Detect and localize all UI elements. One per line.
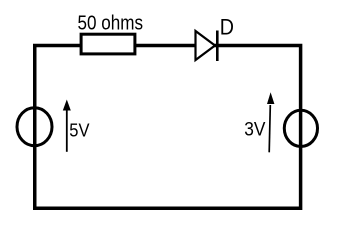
svg-text:5V: 5V <box>69 120 90 141</box>
diode D symbol <box>196 31 218 62</box>
resistor R1 (50 ohms) body <box>81 34 135 54</box>
svg-text:D: D <box>220 14 234 39</box>
svg-text:50 ohms: 50 ohms <box>78 13 144 35</box>
wire main loop <box>35 46 301 209</box>
voltage source V2 (3V) circle <box>284 110 317 146</box>
arrow (V1 polarity) <box>63 100 71 152</box>
svg-text:3V: 3V <box>244 120 265 141</box>
arrow (V2 polarity) <box>267 92 274 152</box>
voltage source V1 (5V) circle <box>17 108 52 146</box>
